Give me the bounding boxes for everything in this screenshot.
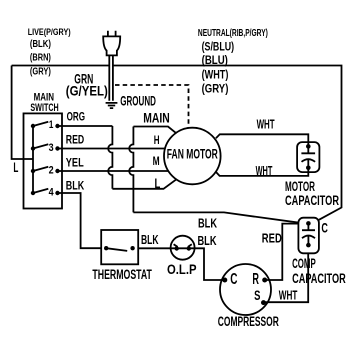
svg-text:MAIN: MAIN (143, 111, 170, 126)
compressor S terminal dot (261, 300, 266, 305)
svg-text:BLK: BLK (66, 179, 85, 193)
plug cord wires (109, 56, 113, 101)
svg-text:1: 1 (49, 119, 54, 131)
wire ORG vertical drop with hops (108, 126, 112, 189)
motor capacitor bottom terminal dot (306, 166, 311, 171)
svg-text:LIVE(P/GRY): LIVE(P/GRY) (28, 27, 71, 38)
svg-text:BLK: BLK (198, 216, 218, 231)
main switch common bar (32, 126, 34, 193)
switch pole 3 pivot dot (31, 146, 35, 150)
svg-text:R: R (252, 271, 259, 288)
switch pole 1 pivot dot (31, 124, 35, 128)
switch pole 2 arm (33, 167, 48, 171)
svg-text:L: L (13, 159, 18, 175)
svg-text:WHT: WHT (256, 163, 273, 178)
switch pole 3 terminal dot (55, 146, 59, 150)
svg-text:L: L (155, 175, 161, 191)
wire neutral rail top-right and right drop (113, 66, 342, 220)
svg-text:WHT: WHT (279, 288, 298, 303)
wire WHT fan to motor capacitor top (216, 134, 308, 146)
wire live left drop to main switch (12, 66, 33, 160)
svg-text:(WHT): (WHT) (202, 70, 229, 82)
thermostat right contact dot (130, 246, 134, 250)
wire RED from switch 3 to fan motor M (58, 148, 166, 150)
fan motor M1 (164, 128, 221, 185)
comp capacitor bottom terminal dot (306, 243, 311, 248)
svg-text:C: C (321, 221, 328, 236)
wire YEL from switch 2 to fan motor L (58, 170, 169, 172)
svg-text:(GRY): (GRY) (30, 67, 51, 78)
wire dashed ground to fan motor frame (115, 85, 189, 128)
svg-text:CAPACITOR: CAPACITOR (285, 193, 339, 209)
switch pole 1 arm (33, 122, 48, 126)
switch pole 2 pivot dot (31, 169, 35, 173)
switch pole 2 terminal dot (55, 169, 59, 173)
svg-text:COMPRESSOR: COMPRESSOR (218, 314, 279, 330)
compressor body (220, 264, 271, 315)
OLP right contact dot (187, 246, 191, 250)
svg-text:H: H (154, 133, 160, 147)
svg-text:NEUTRAL(RIB,P/GRY): NEUTRAL(RIB,P/GRY) (198, 27, 268, 39)
comp capacitor top terminal dot (306, 221, 311, 226)
svg-text:BLK: BLK (141, 232, 159, 247)
wire BLK common to comp capacitor (133, 212, 299, 222)
svg-text:(BLK): (BLK) (30, 39, 51, 50)
wire live rail top-left (12, 65, 109, 67)
svg-text:C: C (230, 271, 237, 288)
motor capacitor body (297, 142, 319, 172)
svg-text:(BRN): (BRN) (30, 53, 51, 64)
svg-text:BLK: BLK (198, 233, 218, 248)
svg-text:(BLU): (BLU) (202, 55, 228, 67)
svg-text:THERMOSTAT: THERMOSTAT (92, 267, 152, 283)
compressor C terminal dot (222, 278, 227, 283)
svg-text:RED: RED (66, 133, 85, 147)
wire connector bottom edge (112, 179, 176, 189)
OLP bimetal (174, 244, 192, 247)
svg-text:YEL: YEL (66, 155, 84, 169)
switch pole 1 terminal dot (55, 124, 59, 128)
svg-text:FAN MOTOR: FAN MOTOR (167, 146, 218, 161)
plug P1 prongs (108, 31, 116, 37)
wire RED comp capacitor to compressor R (265, 224, 299, 280)
svg-text:2: 2 (49, 165, 54, 177)
comp capacitor body (298, 218, 319, 254)
wire BLK from switch 4 to thermostat (58, 193, 102, 248)
wire WHT compressor S to comp capacitor bottom (264, 253, 309, 302)
wire connector common vertical with hops (129, 127, 133, 213)
thermostat box (101, 230, 138, 264)
compressor R terminal dot (262, 278, 267, 283)
motor capacitor plates (301, 146, 315, 167)
wire connector top edge (133, 127, 176, 134)
svg-text:CAPACITOR: CAPACITOR (292, 271, 346, 287)
plug P1 body (103, 36, 120, 55)
svg-text:(GRY): (GRY) (202, 84, 229, 96)
svg-text:GROUND: GROUND (120, 93, 156, 109)
ground symbol (106, 103, 118, 108)
svg-text:3: 3 (49, 142, 54, 154)
svg-text:(G/YEL): (G/YEL) (66, 84, 108, 99)
svg-text:ORG: ORG (67, 110, 85, 124)
wire WHT fan to motor capacitor bottom (215, 168, 308, 176)
wire ORG from switch 1 (58, 125, 113, 127)
svg-text:O.L.P: O.L.P (167, 261, 197, 277)
motor capacitor top terminal dot (306, 144, 311, 149)
switch pole 4 arm (33, 189, 48, 193)
svg-text:SWITCH: SWITCH (30, 102, 58, 114)
svg-text:RED: RED (262, 230, 282, 245)
svg-text:4: 4 (49, 187, 55, 199)
svg-text:S: S (254, 288, 260, 304)
svg-text:WHT: WHT (257, 117, 275, 132)
thermostat arm (106, 248, 127, 251)
switch pole 4 pivot dot (31, 191, 35, 195)
wire thermostat to OLP (138, 248, 225, 280)
OLP left contact dot (175, 246, 179, 250)
switch pole 4 terminal dot (55, 191, 59, 195)
svg-text:M: M (153, 154, 160, 168)
comp capacitor plates (302, 223, 315, 245)
switch pole 3 arm (33, 144, 48, 148)
svg-text:(S/BLU): (S/BLU) (202, 41, 235, 53)
thermostat left contact dot (104, 246, 108, 250)
main switch box (24, 113, 63, 208)
OLP body (171, 236, 195, 260)
svg-text:COMP: COMP (292, 256, 316, 272)
